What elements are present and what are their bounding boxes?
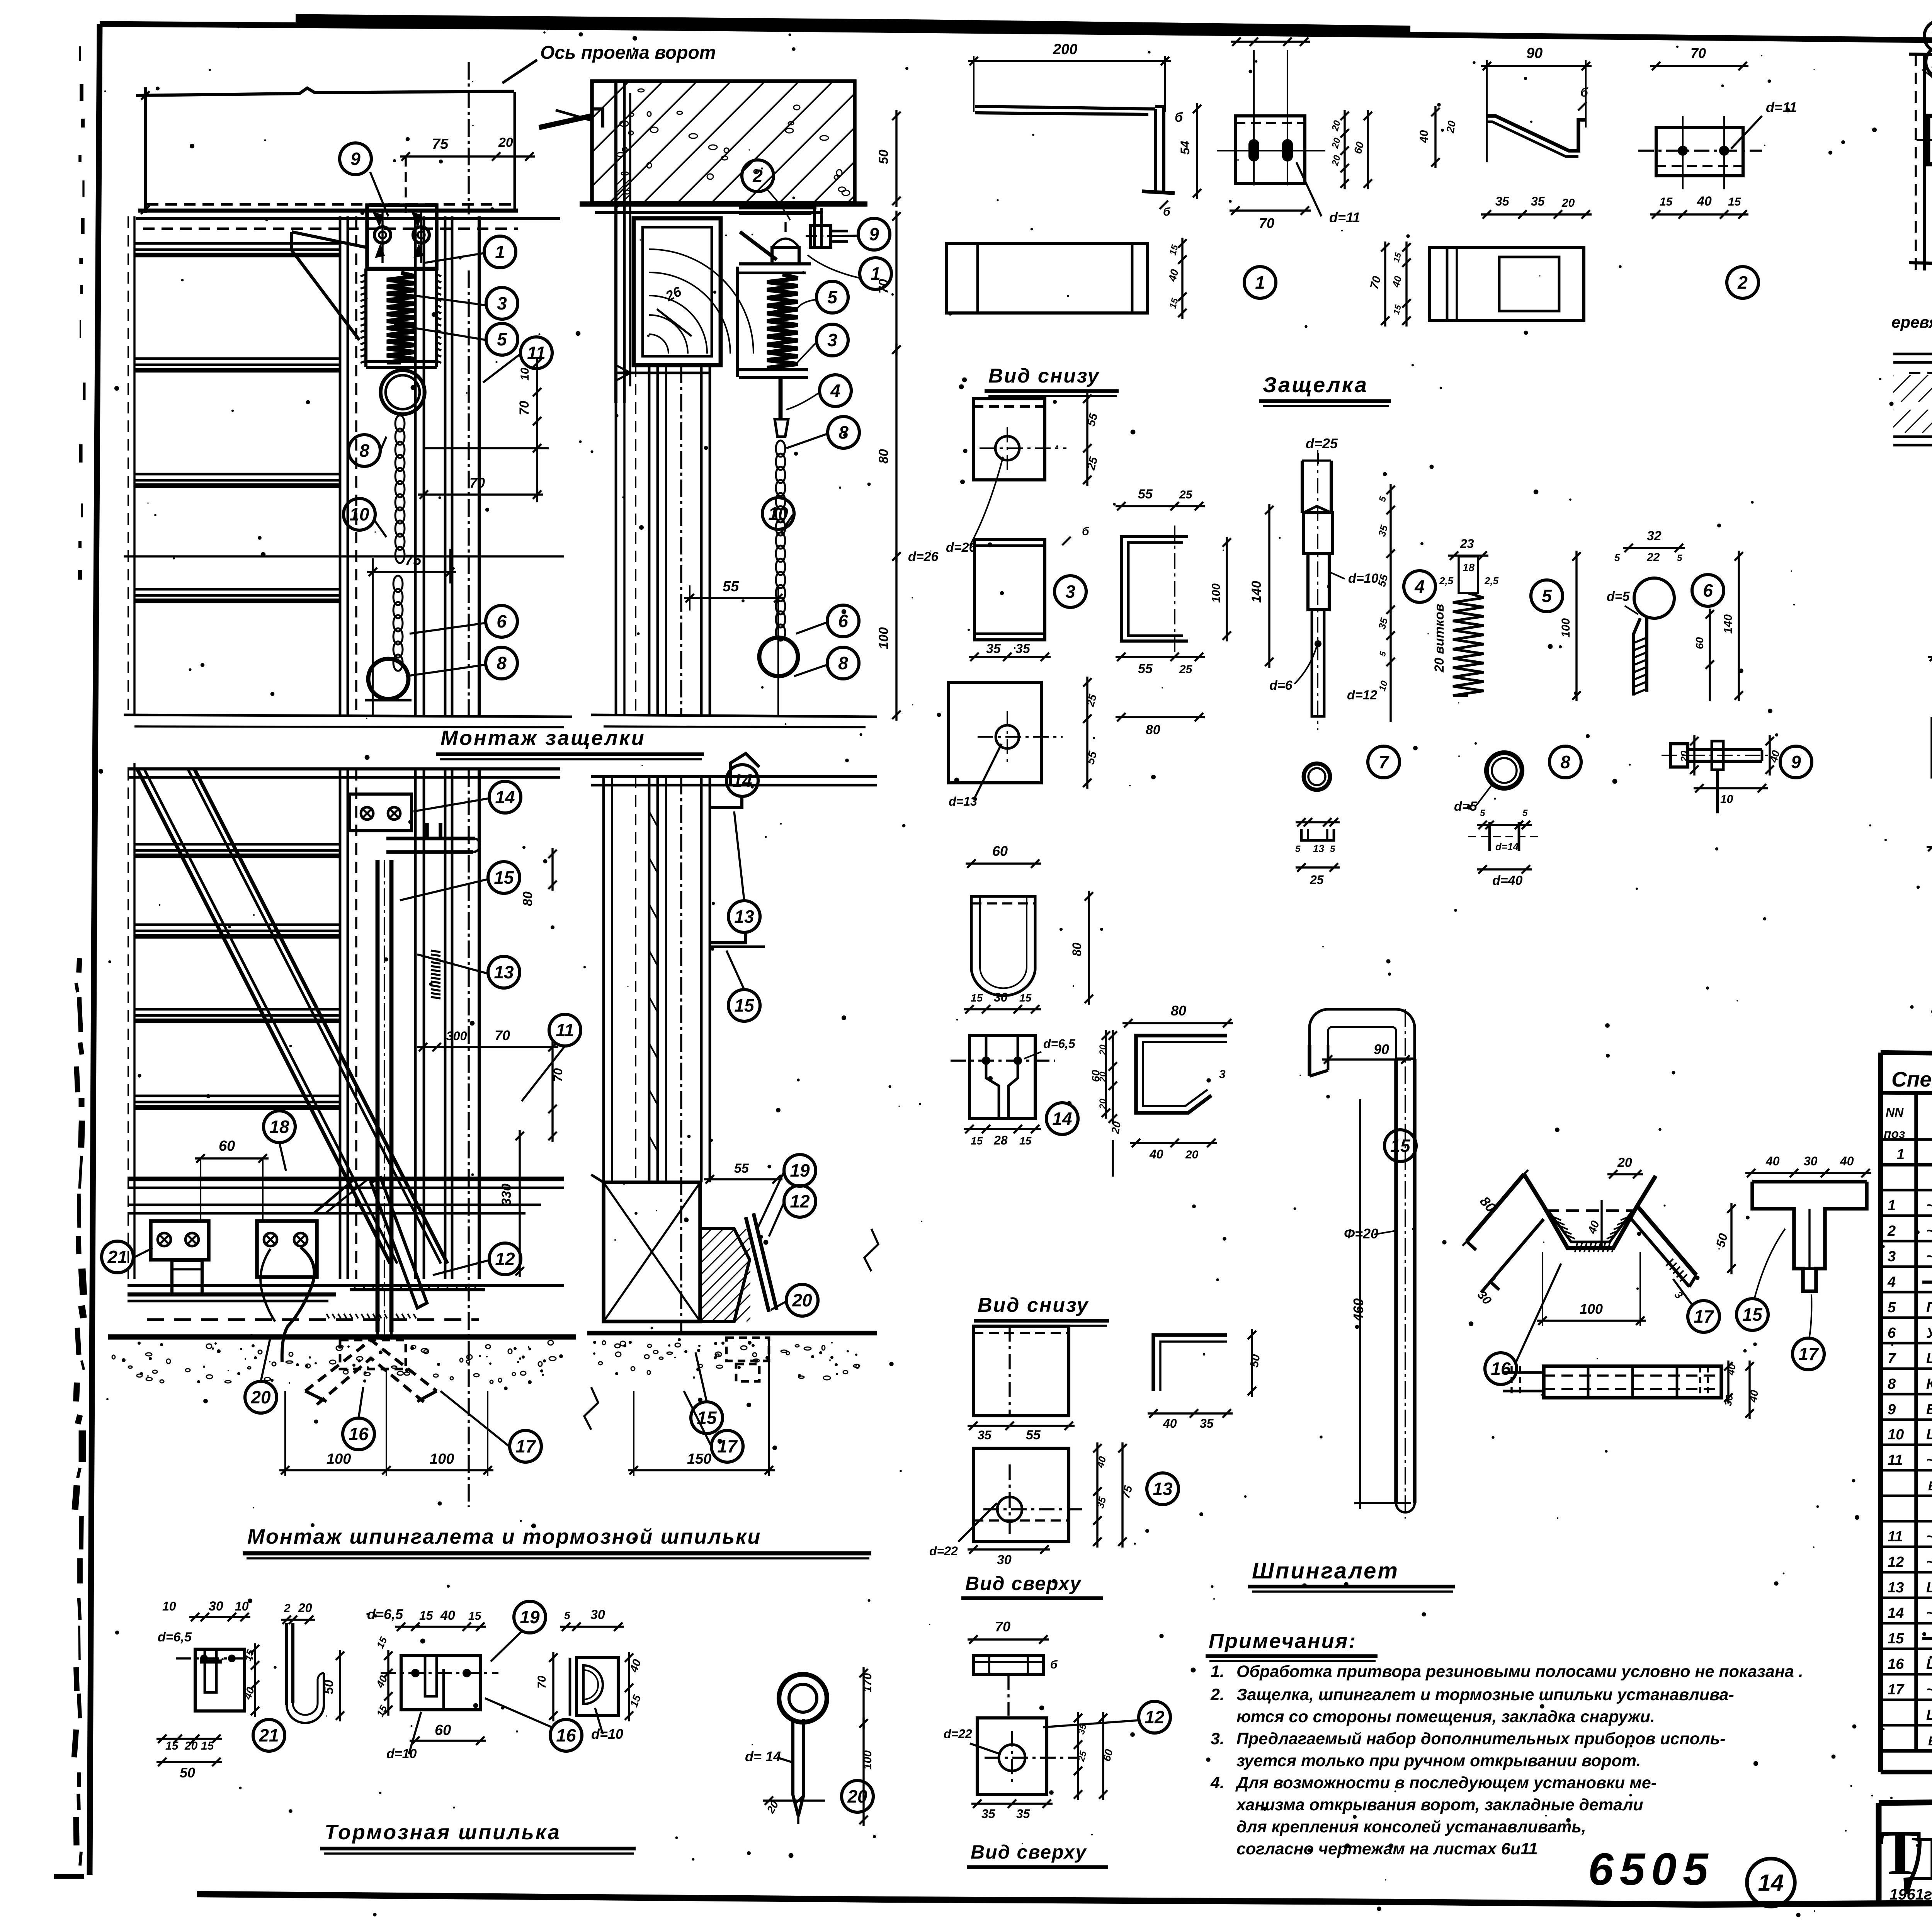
svg-text:d=25: d=25 [1306,435,1338,451]
svg-text:40: 40 [1149,1147,1163,1161]
svg-text:19: 19 [790,1160,810,1180]
svg-text:Шурупы d=6: Шурупы d=6 [1926,1707,1932,1723]
svg-text:~70×6: ~70×6 [1926,1452,1932,1468]
svg-text:10: 10 [1720,793,1733,806]
svg-text:~70×6: ~70×6 [1926,1223,1932,1239]
svg-text:55: 55 [1138,487,1153,502]
svg-text:25: 25 [1179,663,1193,676]
svg-text:20: 20 [1330,136,1342,150]
svg-text:Вид снизу: Вид снизу [988,365,1100,387]
svg-text:50: 50 [321,1680,336,1694]
svg-text:40: 40 [1585,1219,1602,1236]
svg-text:15: 15 [1728,196,1742,208]
svg-text:80: 80 [1171,1003,1186,1019]
svg-text:35: 35 [986,641,1001,656]
svg-text:40: 40 [1163,1417,1177,1430]
svg-text:Монтаж шпингалета и тормозно: Монтаж шпингалета и тормозной шпильки [247,1525,761,1548]
svg-text:17: 17 [1694,1306,1714,1327]
svg-text:2: 2 [1737,272,1748,293]
svg-text:еревянная подкладка 25×70×100: еревянная подкладка 25×70×100 [1891,313,1932,331]
svg-text:3: 3 [1888,1248,1896,1265]
svg-text:35: 35 [1376,616,1390,630]
svg-text:40: 40 [1094,1455,1109,1469]
svg-text:80: 80 [520,891,535,906]
svg-text:10: 10 [1377,679,1390,692]
svg-text:35: 35 [1531,194,1545,208]
svg-text:5: 5 [1330,844,1335,854]
svg-text:20: 20 [847,1786,867,1806]
svg-text:30: 30 [1804,1154,1818,1168]
svg-text:35: 35 [1016,1807,1031,1821]
svg-text:170: 170 [861,1673,874,1692]
svg-text:Вес наплавленного металла 2%: Вес наплавленного металла 2% [1928,1479,1932,1493]
svg-text:3: 3 [497,293,507,313]
svg-text:30: 30 [1722,1394,1735,1407]
svg-text:40: 40 [1418,130,1430,143]
svg-text:140: 140 [1722,614,1735,634]
svg-text:б: б [1175,110,1183,125]
svg-text:100: 100 [1560,618,1572,638]
svg-text:70: 70 [876,279,891,294]
svg-text:d=22: d=22 [929,1544,958,1558]
svg-text:30: 30 [997,1553,1012,1567]
svg-text:70: 70 [495,1027,510,1043]
svg-text:100: 100 [1210,583,1223,603]
svg-text:15: 15 [165,1740,179,1752]
svg-text:15: 15 [971,1135,983,1147]
svg-text:15: 15 [1290,24,1303,37]
svg-text:26: 26 [663,283,684,304]
svg-text:90: 90 [1374,1041,1389,1057]
svg-text:12: 12 [790,1191,810,1211]
svg-text:d=10: d=10 [591,1726,623,1742]
svg-text:2: 2 [1887,1223,1896,1239]
svg-text:16: 16 [1888,1656,1904,1672]
svg-text:Примечания:: Примечания: [1209,1629,1357,1653]
svg-text:75: 75 [405,552,422,568]
svg-text:50: 50 [876,150,891,164]
svg-text:d=14: d=14 [1495,841,1519,852]
svg-text:7: 7 [1888,1350,1896,1367]
svg-text:13: 13 [734,906,754,927]
svg-text:20: 20 [184,1740,198,1752]
svg-text:16: 16 [1491,1359,1511,1379]
svg-text:80: 80 [1146,723,1160,737]
svg-text:60: 60 [992,843,1008,859]
svg-text:55: 55 [1084,750,1100,766]
svg-text:12: 12 [495,1249,515,1269]
svg-text:Шайба d=28: Шайба d=28 [1926,1350,1932,1367]
svg-text:15: 15 [1742,1304,1763,1325]
svg-text:Ось проема ворот: Ось проема ворот [540,43,716,63]
svg-text:18: 18 [269,1117,289,1137]
svg-text:70: 70 [1259,215,1274,231]
svg-text:2,5: 2,5 [1484,575,1499,587]
svg-text:40: 40 [1840,1154,1854,1168]
svg-text:60: 60 [219,1138,235,1154]
svg-text:10: 10 [768,503,788,524]
svg-text:15: 15 [468,1610,482,1622]
svg-text:5: 5 [1295,844,1301,854]
svg-text:14: 14 [1052,1109,1072,1129]
svg-text:15: 15 [1019,1135,1032,1147]
svg-text:L75×50×5: L75×50×5 [1926,1580,1932,1596]
svg-text:16: 16 [556,1725,576,1745]
svg-text:10: 10 [349,504,369,524]
svg-text:Защелка: Защелка [1263,372,1368,397]
svg-text:55: 55 [1376,573,1390,588]
svg-text:2.: 2. [1210,1685,1225,1704]
svg-text:ются со стороны помещения, зак: ются со стороны помещения, закладка снар… [1236,1708,1655,1726]
svg-text:5: 5 [1522,808,1528,818]
svg-text:100: 100 [327,1451,351,1467]
svg-text:20: 20 [1444,120,1458,134]
svg-text:11: 11 [1888,1529,1903,1545]
svg-text:5: 5 [1614,552,1620,563]
svg-text:20: 20 [250,1387,271,1407]
svg-text:23: 23 [1460,537,1474,551]
svg-text:d= 14: d= 14 [745,1748,781,1764]
svg-text:Вид снизу: Вид снизу [978,1294,1089,1316]
svg-text:Д: Д [1903,1823,1932,1895]
svg-text:14: 14 [495,787,515,807]
svg-text:8: 8 [497,653,507,673]
svg-text:20: 20 [1617,1155,1632,1170]
svg-text:20: 20 [1185,1148,1199,1161]
svg-text:70: 70 [1368,275,1384,291]
svg-text:20: 20 [298,1601,312,1615]
svg-text:100: 100 [861,1750,874,1770]
svg-text:70: 70 [536,1675,548,1689]
svg-text:55: 55 [734,1161,749,1176]
svg-text:6505: 6505 [1588,1844,1714,1895]
svg-text:d=5: d=5 [1607,589,1630,604]
svg-text:зуется только при ручном откры: зуется только при ручном открывании воро… [1236,1752,1641,1770]
svg-text:10: 10 [162,1599,176,1613]
svg-text:6: 6 [1703,580,1713,600]
svg-text:35: 35 [1094,1495,1109,1509]
svg-text:14: 14 [1888,1605,1904,1621]
svg-text:55: 55 [723,578,739,595]
svg-text:60: 60 [1352,140,1366,155]
svg-text:8: 8 [359,440,369,461]
svg-text:8: 8 [1888,1376,1896,1392]
svg-text:d=5: d=5 [1454,799,1478,814]
svg-text:5: 5 [564,1609,570,1621]
svg-text:35: 35 [981,1807,996,1821]
svg-text:2,5: 2,5 [1439,575,1454,587]
svg-text:12: 12 [1145,1707,1165,1727]
svg-text:21: 21 [107,1247,127,1267]
svg-text:50: 50 [1248,1353,1262,1368]
svg-text:Обработка притвора резиновыми: Обработка притвора резиновыми полосами у… [1236,1662,1803,1681]
svg-text:50: 50 [1713,1232,1730,1249]
svg-text:50: 50 [180,1765,195,1781]
svg-text:60: 60 [1100,1748,1115,1763]
svg-text:16: 16 [349,1424,369,1444]
svg-text:7: 7 [1379,752,1389,772]
svg-text:11: 11 [527,343,546,363]
svg-text:Защелка, шпингалет и тормозные: Защелка, шпингалет и тормозные шпильки у… [1236,1685,1734,1704]
svg-text:9: 9 [869,224,879,244]
svg-text:20: 20 [498,135,513,150]
svg-text:35: 35 [978,1428,992,1442]
svg-text:4: 4 [830,381,840,401]
svg-text:Пружина d=2,5: Пружина d=2,5 [1926,1299,1932,1316]
svg-text:d=11: d=11 [1766,99,1797,115]
svg-text:4: 4 [1887,1274,1896,1290]
svg-text:15: 15 [1237,24,1251,37]
svg-text:NN: NN [1886,1105,1904,1119]
svg-text:поз: поз [1884,1127,1905,1141]
svg-text:Цепь: Цепь [1926,1427,1932,1443]
svg-text:d=40: d=40 [1492,873,1523,888]
svg-text:70: 70 [995,1619,1010,1634]
svg-text:8: 8 [838,422,849,442]
svg-text:28: 28 [993,1133,1008,1147]
svg-text:20: 20 [1330,154,1342,167]
svg-text:~30×3: ~30×3 [1926,1682,1932,1698]
svg-text:150: 150 [687,1451,711,1467]
svg-text:11: 11 [1888,1452,1903,1468]
svg-text:5: 5 [1542,586,1552,606]
svg-text:200: 200 [1053,41,1077,58]
svg-text:Кольцо d=5: Кольцо d=5 [1926,1376,1932,1392]
svg-text:140: 140 [1249,581,1264,603]
svg-text:75: 75 [432,136,449,152]
svg-text:21: 21 [259,1725,279,1745]
svg-text:17: 17 [1798,1344,1819,1364]
svg-text:15: 15 [1391,251,1403,263]
svg-text:40: 40 [1262,22,1277,37]
svg-text:22: 22 [1930,26,1932,46]
svg-text:20 витков: 20 витков [1432,604,1447,673]
svg-text:Ушко d=5: Ушко d=5 [1926,1325,1932,1341]
svg-text:~60×6: ~60×6 [1926,1554,1932,1570]
svg-text:Болт d=10: Болт d=10 [1926,1401,1932,1418]
svg-text:d=6,5: d=6,5 [1043,1037,1076,1051]
svg-text:~70×6: ~70×6 [1926,1529,1932,1545]
svg-text:35: 35 [1495,194,1510,208]
svg-text:35: 35 [1376,524,1390,537]
svg-text:б: б [1580,85,1588,99]
svg-text:32: 32 [1647,529,1662,543]
svg-text:Шпингалет: Шпингалет [1252,1558,1399,1583]
svg-text:12: 12 [1888,1554,1904,1570]
svg-text:40: 40 [440,1608,455,1623]
svg-text:3: 3 [1065,582,1075,602]
svg-text:d=12: d=12 [1347,688,1378,702]
svg-text:17: 17 [515,1436,536,1456]
svg-text:70: 70 [517,401,532,415]
svg-text:5: 5 [497,329,507,349]
svg-text:15: 15 [1168,243,1180,256]
svg-text:330: 330 [499,1184,514,1206]
svg-text:Тормозная шпилька: Тормозная шпилька [325,1821,561,1844]
svg-text:80: 80 [876,449,891,464]
svg-text:5: 5 [1480,808,1485,818]
svg-text:1: 1 [1888,1197,1896,1214]
svg-text:54: 54 [1178,141,1192,155]
svg-text:d=22: d=22 [944,1727,972,1741]
svg-text:70: 70 [551,1068,565,1082]
svg-text:9: 9 [1888,1401,1896,1418]
svg-text:d=10: d=10 [386,1747,417,1761]
svg-text:30: 30 [1475,1288,1495,1308]
svg-text:13: 13 [1313,843,1324,854]
svg-text:100: 100 [1580,1301,1603,1317]
svg-text:2: 2 [284,1602,291,1615]
svg-text:20: 20 [1679,751,1690,762]
svg-text:40: 40 [1765,1154,1780,1168]
svg-text:18: 18 [1463,561,1475,573]
svg-text:15: 15 [419,1609,434,1622]
svg-text:15: 15 [374,1635,389,1650]
svg-text:Монтаж защелки: Монтаж защелки [440,726,646,750]
svg-text:5: 5 [827,287,838,307]
svg-text:~70×6: ~70×6 [1926,1197,1932,1214]
svg-text:13: 13 [1888,1580,1904,1596]
svg-text:6: 6 [1888,1325,1896,1341]
svg-text:100: 100 [430,1451,454,1467]
svg-text:15: 15 [1391,303,1403,315]
svg-text:40: 40 [1747,1389,1760,1403]
svg-text:60: 60 [1694,637,1706,649]
svg-text:22: 22 [1646,551,1660,564]
svg-text:13: 13 [494,962,514,982]
svg-text:Вес наплавленного металла 2%: Вес наплавленного металла 2% [1928,1734,1932,1748]
svg-text:8: 8 [838,653,848,673]
svg-text:1961г: 1961г [1889,1886,1932,1903]
svg-text:25: 25 [1179,488,1193,501]
svg-text:100: 100 [876,627,891,649]
svg-text:б: б [1082,525,1090,538]
svg-text:13: 13 [1153,1479,1173,1499]
svg-text:460: 460 [1350,1298,1366,1322]
svg-text:1: 1 [1255,272,1265,293]
svg-text:17: 17 [1888,1682,1905,1698]
svg-text:Спецификация металла на при: Спецификация металла на приборы при откр… [1891,1067,1932,1091]
svg-text:5: 5 [1378,650,1388,657]
svg-text:60: 60 [1090,1070,1102,1082]
svg-text:55: 55 [1138,662,1153,676]
svg-text:70: 70 [469,475,485,491]
svg-text:19: 19 [520,1607,540,1627]
svg-text:Вид сверху: Вид сверху [965,1573,1082,1594]
svg-text:55: 55 [1026,1428,1041,1442]
svg-text:10: 10 [235,1599,249,1613]
svg-text:90: 90 [1526,45,1543,61]
svg-text:d=6: d=6 [1269,678,1293,693]
svg-text:3.: 3. [1211,1730,1225,1748]
svg-text:40: 40 [1697,194,1712,209]
svg-text:11: 11 [556,1020,574,1040]
svg-text:80: 80 [1477,1193,1499,1215]
svg-text:15: 15 [1019,992,1032,1004]
svg-text:35: 35 [1200,1417,1214,1430]
svg-text:30: 30 [209,1599,223,1614]
svg-text:10: 10 [1888,1427,1904,1443]
svg-text:1.: 1. [1211,1662,1225,1681]
svg-text:5: 5 [1677,553,1682,563]
svg-text:20: 20 [1561,197,1575,209]
svg-text:20: 20 [1109,1121,1123,1135]
svg-text:30: 30 [590,1607,605,1622]
svg-text:15: 15 [1390,1136,1411,1156]
svg-text:15: 15 [1168,297,1180,310]
svg-text:d=6,5: d=6,5 [158,1630,192,1645]
svg-text:4.: 4. [1210,1774,1225,1792]
svg-text:80: 80 [1070,942,1084,956]
svg-text:40: 40 [1725,1363,1738,1376]
svg-text:14: 14 [1758,1870,1784,1896]
svg-text:15: 15 [734,995,755,1015]
svg-text:3: 3 [1672,1289,1685,1301]
svg-text:3: 3 [1219,1068,1226,1081]
svg-text:15: 15 [1888,1631,1904,1647]
svg-text:для крепления консолей: для крепления консолей устанавливать, [1236,1818,1586,1836]
svg-text:d=26: d=26 [908,549,939,564]
svg-text:30: 30 [994,990,1008,1004]
svg-text:d=6,5: d=6,5 [367,1606,403,1622]
svg-text:9: 9 [1791,752,1801,772]
svg-text:Предлагаемый набор дополнитель: Предлагаемый набор дополнительных прибор… [1236,1730,1726,1748]
svg-text:d=11: d=11 [1329,209,1360,225]
svg-text:d=13: d=13 [949,794,977,808]
svg-text:1: 1 [1896,1146,1905,1163]
svg-text:ханизма открывания ворот, за: ханизма открывания ворот, закладные дета… [1236,1796,1643,1814]
svg-text:9: 9 [350,149,361,169]
svg-text:20: 20 [792,1290,812,1310]
svg-text:40: 40 [1390,274,1404,289]
svg-text:60: 60 [435,1722,451,1738]
svg-text:4: 4 [1414,577,1425,597]
svg-text:15: 15 [494,867,514,888]
svg-text:40: 40 [1166,268,1181,283]
svg-text:согласно чертежам на листах: согласно чертежам на листах 6и11 [1236,1840,1538,1858]
svg-text:5: 5 [1888,1299,1896,1316]
svg-text:Для возможности в последующ: Для возможности в последующем установки … [1235,1774,1656,1792]
svg-text:d=10: d=10 [1348,571,1379,586]
svg-text:35: 35 [1015,641,1031,656]
svg-text:б: б [1163,206,1171,218]
svg-text:10: 10 [519,367,531,381]
svg-text:25: 25 [1310,873,1324,887]
svg-text:20: 20 [1330,119,1342,132]
svg-text:300: 300 [446,1029,467,1043]
svg-text:~70×6: ~70×6 [1926,1248,1932,1265]
svg-text:15: 15 [374,1703,389,1718]
svg-text:70: 70 [1690,45,1706,61]
svg-text:3: 3 [827,330,837,350]
svg-text:15: 15 [1660,196,1673,208]
svg-text:15: 15 [201,1740,214,1752]
svg-text:Вид сверху: Вид сверху [971,1841,1087,1863]
svg-text:15: 15 [971,992,983,1004]
svg-text:8: 8 [1560,752,1570,772]
svg-text:6: 6 [497,611,507,631]
svg-text:1: 1 [495,242,505,262]
svg-text:б: б [1050,1658,1058,1671]
svg-text:~60×3: ~60×3 [1926,1605,1932,1621]
svg-text:5: 5 [1377,495,1389,503]
svg-text:14: 14 [732,770,752,791]
